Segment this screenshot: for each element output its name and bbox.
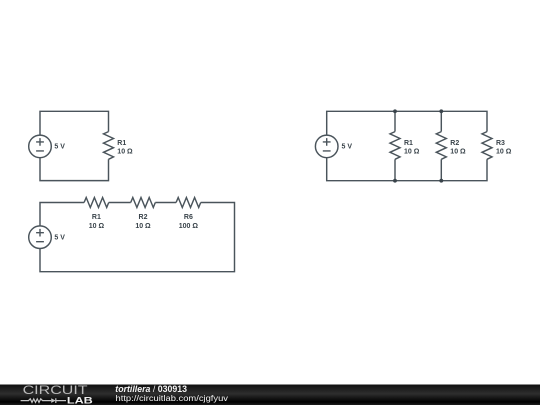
CircuitLab logo word CIRCUIT (23, 384, 88, 397)
wire stub R2 column bottom (440, 159, 442, 180)
CircuitLab logo resistor squiggle and diode (21, 398, 66, 403)
wire top (node between V1 and R1) (40, 111, 109, 135)
svg-text:R1: R1 (92, 214, 101, 221)
wire stub R1 column bottom (394, 159, 396, 180)
svg-text:10 Ω: 10 Ω (450, 149, 466, 156)
wire bottom (40, 158, 109, 181)
resistor R1 (series) (84, 198, 109, 208)
label R1 10 Ohm (parallel) (404, 140, 420, 156)
voltage source V3 5V (parallel circuit) (315, 135, 338, 158)
svg-text:10 Ω: 10 Ω (496, 149, 512, 156)
wire top bus (327, 111, 487, 135)
svg-text:5 V: 5 V (342, 144, 353, 151)
resistor R6 (series) (176, 198, 201, 208)
svg-text:10 Ω: 10 Ω (135, 223, 151, 230)
svg-text:5 V: 5 V (54, 144, 65, 151)
svg-text:R1: R1 (404, 140, 413, 147)
svg-text:R6: R6 (184, 214, 193, 221)
junction dot bottom node R2 (439, 179, 443, 183)
svg-text:http://circuitlab.com/cjgfyuv: http://circuitlab.com/cjgfyuv (116, 393, 229, 403)
svg-text:5 V: 5 V (54, 234, 65, 241)
label 5 V (V1) (54, 144, 65, 151)
svg-text:LAB: LAB (67, 395, 93, 405)
junction dot top node R2 (439, 109, 443, 113)
footer title: tortillera / 030913 (115, 384, 187, 394)
wire stub R2 column top (440, 111, 442, 131)
svg-text:100 Ω: 100 Ω (179, 223, 199, 230)
label R2 10 Ohm (series) (135, 214, 151, 230)
svg-text:R1: R1 (117, 140, 126, 147)
wire between R1 and R2 (109, 202, 131, 204)
label R6 100 Ohm (series) (179, 214, 199, 230)
label R1 10 Ohm (series) (89, 214, 105, 230)
CircuitLab logo word LAB (67, 395, 93, 405)
label R3 10 Ohm (parallel) (496, 140, 512, 156)
wire between R2 and R6 (155, 202, 176, 204)
svg-text:10 Ω: 10 Ω (117, 149, 133, 156)
voltage source V1 5V (29, 135, 52, 158)
resistor R1 (104, 132, 114, 160)
junction dot bottom node R1 (393, 179, 397, 183)
resistor R2 (series) (131, 198, 156, 208)
voltage source V2 5V (series circuit) (29, 226, 52, 249)
svg-text:R2: R2 (450, 140, 459, 147)
resistor R1 (parallel) (390, 132, 400, 160)
junction dot top node R1 (393, 109, 397, 113)
label R1 10 Ohm (117, 140, 133, 156)
svg-text:10 Ω: 10 Ω (89, 223, 105, 230)
label 5 V (V3) (342, 144, 353, 151)
label R2 10 Ohm (parallel) (450, 140, 466, 156)
wire bottom bus (327, 158, 487, 181)
label 5 V (V2) (54, 234, 65, 241)
footer background bar (0, 385, 540, 405)
wire stub R1 column top (394, 111, 396, 131)
resistor R2 (parallel) (436, 132, 446, 160)
wire right and bottom return (40, 203, 235, 272)
footer url (116, 393, 229, 403)
wire top left segment (40, 203, 84, 227)
resistor R3 (parallel, right leg) (482, 132, 492, 160)
svg-text:R3: R3 (496, 140, 505, 147)
svg-text:R2: R2 (139, 214, 148, 221)
svg-text:10 Ω: 10 Ω (404, 149, 420, 156)
